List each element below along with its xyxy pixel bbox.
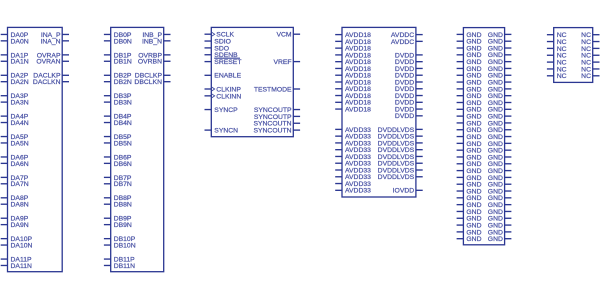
pin SDIO — [205, 38, 231, 45]
svg-text:DA1N: DA1N — [11, 59, 29, 66]
pin OVRBP — [138, 52, 170, 59]
pin SYNCOUTP (2) — [254, 114, 300, 121]
svg-text:VCM: VCM — [276, 32, 291, 39]
pin DB2P — [104, 73, 132, 80]
pin DB2N — [104, 79, 132, 86]
pin GND (L5) — [457, 59, 482, 66]
pin DVDDLVDS (4) — [378, 147, 423, 154]
symbol block U1-E (ground) — [463, 28, 504, 245]
svg-text:NC: NC — [581, 73, 591, 80]
svg-text:DA7N: DA7N — [11, 181, 29, 188]
pin DB6N — [104, 161, 132, 168]
pin DA7N — [1, 181, 29, 188]
pin DA3N — [1, 100, 29, 107]
svg-text:DVDD: DVDD — [395, 113, 414, 120]
pin GND (R21) — [488, 168, 512, 175]
pin GND (L19) — [457, 154, 482, 161]
pin DB7N — [104, 181, 132, 188]
pin GND (R23) — [488, 182, 512, 189]
pin OVRBN — [138, 59, 171, 66]
pin DA8P — [1, 195, 29, 202]
pin DB6P — [104, 154, 132, 161]
pin DA1N — [1, 59, 29, 66]
pin GND (R1) — [488, 32, 512, 39]
pin SYNCOUTN (2) — [253, 128, 300, 135]
pin GND (R14) — [488, 120, 512, 127]
pin GND (R4) — [488, 52, 512, 59]
svg-text:DB1N: DB1N — [114, 59, 132, 66]
pin DA10P — [1, 236, 33, 243]
pin DVDD (8) — [395, 100, 423, 107]
pin DBCLKN — [134, 79, 170, 86]
svg-text:DB2N: DB2N — [114, 79, 132, 86]
svg-text:DA10N: DA10N — [11, 242, 33, 249]
pin GND (L17) — [457, 141, 482, 148]
pin GND (L20) — [457, 161, 482, 168]
pin DA8N — [1, 202, 29, 209]
svg-text:NC: NC — [557, 73, 567, 80]
pin GND (R2) — [488, 39, 512, 46]
pin GND (R5) — [488, 59, 512, 66]
svg-text:GND: GND — [488, 236, 503, 243]
pin GND (R22) — [488, 175, 512, 182]
pin DVDD (4) — [395, 73, 423, 80]
pin GND (L29) — [457, 222, 482, 229]
pin NC (R5) — [581, 60, 599, 67]
pin DB11N — [104, 263, 135, 270]
pin AVDD18 (6) — [335, 66, 371, 73]
pin NC (L6) — [547, 66, 567, 73]
pin AVDDC (2) — [391, 39, 423, 46]
pin GND (L8) — [457, 79, 482, 86]
pin DA11P — [1, 256, 32, 263]
pin GND (R17) — [488, 141, 512, 148]
symbol block U1-F (no connects) — [554, 28, 593, 83]
pin SDENB — [205, 52, 239, 59]
pin NC (L7) — [547, 73, 567, 80]
pin DVDDLVDS (8) — [378, 174, 423, 181]
pin GND (L18) — [457, 148, 482, 155]
pin NC (L2) — [547, 39, 567, 46]
pin GND (R11) — [488, 100, 512, 107]
pin GND (R28) — [488, 216, 512, 223]
pin GND (L14) — [457, 120, 482, 127]
pin DB8P — [104, 195, 132, 202]
pin GND (L23) — [457, 182, 482, 189]
svg-text:DB11N: DB11N — [114, 263, 135, 270]
pin GND (R8) — [488, 79, 512, 86]
pin GND (L24) — [457, 188, 482, 195]
pin DA5N — [1, 140, 29, 147]
pin DACLKP — [33, 73, 69, 80]
svg-text:DA2N: DA2N — [11, 79, 29, 86]
pin GND (L1) — [457, 32, 482, 39]
pin GND (R29) — [488, 222, 512, 229]
pin GND (L22) — [457, 175, 482, 182]
pin AVDD18 (2) — [335, 39, 371, 46]
pin AVDD33 (1) — [335, 127, 371, 134]
pin AVDD18 (8) — [335, 79, 371, 86]
pin NC (L5) — [547, 60, 567, 67]
pin DA4N — [1, 120, 29, 127]
pin AVDD18 (7) — [335, 73, 371, 80]
pin DA0N — [1, 38, 29, 45]
pin GND (R30) — [488, 229, 512, 236]
pin GND (L26) — [457, 202, 482, 209]
pin SYNCN — [205, 128, 239, 135]
pin NC (R2) — [581, 39, 599, 46]
pin AVDD18 (12) — [335, 106, 371, 113]
svg-text:OVRBN: OVRBN — [138, 59, 162, 66]
pin AVDD18 (1) — [335, 32, 371, 39]
svg-text:DBCLKN: DBCLKN — [134, 79, 162, 86]
pin DB1P — [104, 52, 132, 59]
pin DA7P — [1, 175, 29, 182]
svg-text:DA5N: DA5N — [11, 140, 29, 147]
pin DVDD (1) — [395, 52, 423, 59]
symbol block U1-B (channel B data) — [111, 27, 164, 271]
svg-text:SYNCN: SYNCN — [214, 128, 238, 135]
pin OVRAP — [37, 52, 69, 59]
pin VCM — [276, 32, 300, 39]
pin INA_N — [40, 38, 69, 45]
pin DVDD (7) — [395, 93, 423, 100]
pin GND (L7) — [457, 73, 482, 80]
pin GND (R6) — [488, 66, 512, 73]
svg-text:SYNCOUTN: SYNCOUTN — [253, 128, 291, 135]
svg-text:AVDD33: AVDD33 — [345, 188, 371, 195]
pin GND (R7) — [488, 73, 512, 80]
pin TESTMODE — [254, 86, 300, 93]
pin DB4N — [104, 120, 132, 127]
pin DVDD (10) — [395, 113, 423, 120]
pin DB9P — [104, 216, 132, 223]
pin GND (L10) — [457, 93, 482, 100]
pin DA0P — [1, 32, 29, 39]
pin DB1N — [104, 59, 132, 66]
pin DB10N — [104, 242, 136, 249]
pin NC (R4) — [581, 53, 599, 60]
pin AVDD18 (3) — [335, 46, 371, 53]
svg-text:DA8N: DA8N — [11, 202, 29, 209]
pin DVDDLVDS (7) — [378, 167, 423, 174]
pin DA2P — [1, 73, 29, 80]
pin GND (R10) — [488, 93, 512, 100]
pin DVDD (6) — [395, 86, 423, 93]
svg-text:SYNCP: SYNCP — [214, 107, 238, 114]
pin GND (R9) — [488, 86, 512, 93]
pin DVDDLVDS (2) — [378, 134, 423, 141]
pin GND (L16) — [457, 134, 482, 141]
svg-text:DB0N: DB0N — [114, 38, 132, 45]
svg-text:DB3N: DB3N — [114, 100, 132, 107]
svg-text:DB4N: DB4N — [114, 120, 132, 127]
pin DA3P — [1, 93, 29, 100]
pin DA11N — [1, 263, 32, 270]
pin DVDD (3) — [395, 66, 423, 73]
pin VREF — [273, 59, 300, 66]
svg-text:INA_N: INA_N — [40, 38, 60, 45]
pin DBCLKP — [135, 73, 171, 80]
pin DB9N — [104, 222, 132, 229]
svg-text:DA0N: DA0N — [11, 38, 29, 45]
pin GND (L6) — [457, 66, 482, 73]
pin DVDD (5) — [395, 79, 423, 86]
pin AVDD18 (11) — [335, 100, 371, 107]
pin DB0N — [104, 38, 132, 45]
pin SRESET — [205, 59, 242, 66]
pin AVDD33 (2) — [335, 134, 371, 141]
pin IOVDD — [393, 188, 423, 195]
pin NC (R1) — [581, 32, 599, 39]
pin AVDD18 (9) — [335, 86, 371, 93]
pin GND (L25) — [457, 195, 482, 202]
pin GND (L4) — [457, 52, 482, 59]
pin GND (L3) — [457, 45, 482, 52]
pin DA1P — [1, 52, 29, 59]
pin GND (R25) — [488, 195, 512, 202]
pin INB_N — [142, 38, 171, 45]
svg-text:OVRAN: OVRAN — [36, 59, 60, 66]
pin AVDD33 (7) — [335, 167, 371, 174]
pin DVDDLVDS (6) — [378, 161, 423, 168]
svg-text:IOVDD: IOVDD — [393, 188, 415, 195]
svg-text:DA4N: DA4N — [11, 120, 29, 127]
pin DA6P — [1, 154, 29, 161]
pin GND (L13) — [457, 114, 482, 121]
pin DB5P — [104, 134, 132, 141]
pin DA9P — [1, 216, 29, 223]
svg-text:DACLKN: DACLKN — [33, 79, 61, 86]
pin SYNCOUTP (1) — [254, 107, 300, 114]
pin DVDDLVDS (1) — [378, 127, 423, 134]
pin GND (R15) — [488, 127, 512, 134]
pin GND (L2) — [457, 39, 482, 46]
svg-text:DVDDLVDS: DVDDLVDS — [378, 174, 415, 181]
pin AVDD18 (10) — [335, 93, 371, 100]
svg-text:GND: GND — [466, 236, 481, 243]
pin SDO — [205, 45, 230, 52]
pin DB3N — [104, 100, 132, 107]
svg-text:DA11N: DA11N — [11, 263, 32, 270]
svg-text:VREF: VREF — [273, 59, 291, 66]
pin CLKINN — [205, 93, 242, 100]
pin NC (R3) — [581, 46, 599, 53]
pin AVDD18 (5) — [335, 59, 371, 66]
pin AVDD33 (10) — [335, 188, 371, 195]
pin GND (R24) — [488, 188, 512, 195]
pin AVDD33 (4) — [335, 147, 371, 154]
svg-text:ENABLE: ENABLE — [214, 73, 241, 80]
pin GND (L12) — [457, 107, 482, 114]
svg-text:AVDDC: AVDDC — [391, 39, 414, 46]
pin DB4P — [104, 114, 132, 121]
symbol block U1-C (control and clock) — [211, 27, 293, 136]
pin GND (L31) — [457, 236, 482, 243]
pin AVDD33 (9) — [335, 181, 371, 188]
pin AVDD33 (6) — [335, 161, 371, 168]
pin DB10P — [104, 236, 136, 243]
pin GND (R26) — [488, 202, 512, 209]
pin DACLKN — [33, 79, 69, 86]
symbol block U1-A (channel A data) — [8, 27, 63, 271]
pin DB3P — [104, 93, 132, 100]
pin NC (L1) — [547, 32, 567, 39]
pin NC (R6) — [581, 66, 599, 73]
SRESET active-low overline — [214, 57, 240, 59]
svg-text:DB8N: DB8N — [114, 202, 132, 209]
svg-text:DB5N: DB5N — [114, 140, 132, 147]
pin SYNCP — [205, 107, 239, 114]
pin AVDD33 (8) — [335, 174, 371, 181]
pin GND (L27) — [457, 209, 482, 216]
pin DB8N — [104, 202, 132, 209]
pin GND (R31) — [488, 236, 512, 243]
pin CLKINP — [205, 86, 242, 93]
svg-text:DB7N: DB7N — [114, 181, 132, 188]
pin GND (R27) — [488, 209, 512, 216]
pin DA9N — [1, 222, 29, 229]
symbol block U1-D (power) — [342, 27, 416, 197]
pin AVDD33 (5) — [335, 154, 371, 161]
pin GND (L21) — [457, 168, 482, 175]
pin AVDDC (1) — [391, 32, 423, 39]
pin GND (R19) — [488, 154, 512, 161]
pin GND (R18) — [488, 148, 512, 155]
svg-text:DA6N: DA6N — [11, 161, 29, 168]
svg-text:DB10N: DB10N — [114, 242, 136, 249]
pin DA6N — [1, 161, 29, 168]
pin NC (L4) — [547, 53, 567, 60]
pin DA10N — [1, 242, 33, 249]
pin GND (L9) — [457, 86, 482, 93]
pin DVDD (9) — [395, 106, 423, 113]
svg-text:AVDD18: AVDD18 — [345, 106, 371, 113]
svg-text:SRESET: SRESET — [214, 59, 241, 66]
pin DB0P — [104, 32, 132, 39]
pin GND (R12) — [488, 107, 512, 114]
svg-text:INB_N: INB_N — [142, 38, 162, 45]
svg-text:DB6N: DB6N — [114, 161, 132, 168]
pin GND (L11) — [457, 100, 482, 107]
pin DB5N — [104, 140, 132, 147]
svg-text:TESTMODE: TESTMODE — [254, 86, 292, 93]
pin DA4P — [1, 114, 29, 121]
pin DB7P — [104, 175, 132, 182]
svg-text:DA9N: DA9N — [11, 222, 29, 229]
pin NC (L3) — [547, 46, 567, 53]
pin GND (L15) — [457, 127, 482, 134]
svg-text:DB9N: DB9N — [114, 222, 132, 229]
pin GND (L30) — [457, 229, 482, 236]
pin INB_P — [142, 32, 170, 39]
pin AVDD18 (4) — [335, 52, 371, 59]
pin SYNCOUTN (1) — [253, 121, 300, 128]
pin GND (R20) — [488, 161, 512, 168]
pin ENABLE — [205, 73, 242, 80]
pin DA5P — [1, 134, 29, 141]
pin SCLK — [205, 32, 235, 39]
pin DVDDLVDS (5) — [378, 154, 423, 161]
pin GND (R3) — [488, 45, 512, 52]
pin GND (R16) — [488, 134, 512, 141]
pin NC (R7) — [581, 73, 599, 80]
pin DVDDLVDS (3) — [378, 140, 423, 147]
pin DB11P — [104, 256, 135, 263]
svg-text:DA3N: DA3N — [11, 100, 29, 107]
pin DVDD (2) — [395, 59, 423, 66]
pin OVRAN — [36, 59, 69, 66]
pin GND (R13) — [488, 114, 512, 121]
pin GND (L28) — [457, 216, 482, 223]
pin INA_P — [41, 32, 69, 39]
pin AVDD33 (3) — [335, 140, 371, 147]
svg-text:CLKINN: CLKINN — [216, 93, 241, 100]
pin DA2N — [1, 79, 29, 86]
